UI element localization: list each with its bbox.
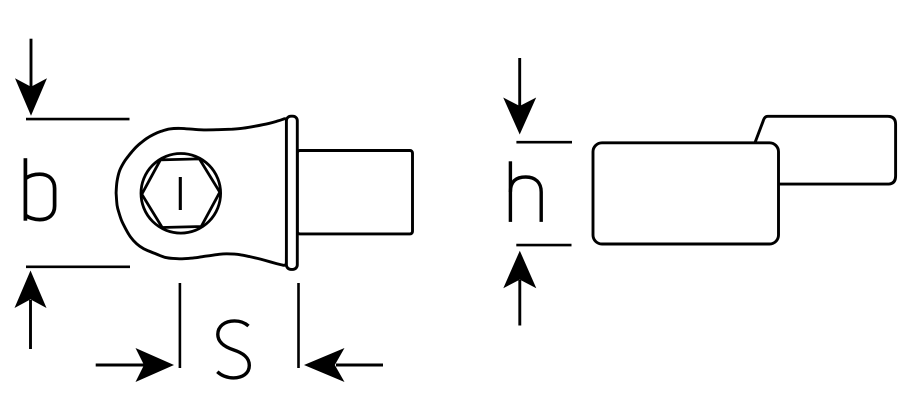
extension line b top <box>26 118 130 121</box>
dimension arrow S left <box>96 348 174 382</box>
label S <box>217 321 249 378</box>
extension line S left <box>179 283 182 368</box>
extension line b bottom <box>26 265 130 268</box>
extension line h top <box>516 141 572 144</box>
dimension arrow S right <box>304 348 383 382</box>
hex center mark <box>179 177 182 210</box>
hex socket hexagon <box>142 159 220 228</box>
flange lip front edge <box>286 116 297 269</box>
dimension arrow b bottom <box>15 271 47 350</box>
ring head outline <box>116 119 287 266</box>
dimension arrow b top <box>15 39 47 116</box>
extension line S right <box>297 283 300 368</box>
head plate side view <box>739 116 895 184</box>
shank (square drive) top view <box>297 151 412 234</box>
label h <box>510 161 541 222</box>
extension line h bottom <box>516 244 571 247</box>
shank body side view <box>593 143 779 244</box>
hex socket circle <box>141 154 221 234</box>
label b <box>25 158 54 221</box>
dimension arrow h bottom <box>503 251 536 326</box>
dimension arrow h top <box>503 58 536 135</box>
